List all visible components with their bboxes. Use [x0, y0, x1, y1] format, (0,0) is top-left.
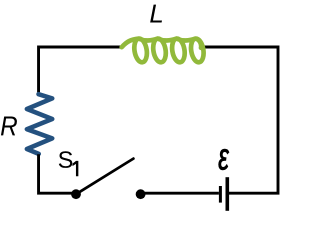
label L [150, 5, 162, 23]
label R [1, 116, 17, 135]
battery EMF source: long plate (positive) [226, 177, 230, 211]
circuit schematic: RL circuit with switch S1 and EMF source [0, 0, 281, 212]
switch S1: blade (open) [76, 159, 133, 195]
label S1 [59, 151, 73, 168]
label EMF epsilon (script) [219, 149, 229, 170]
wire: bottom from right contact to battery short plate [141, 192, 219, 195]
wire: left side below resistor and bottom-left to switch [39, 154, 72, 193]
battery EMF source: short plate (negative) [219, 186, 222, 203]
resistor R (blue zigzag) [27, 94, 52, 154]
wire: top-left segment and left side down to resistor [39, 47, 121, 92]
switch S1: left contact dot [71, 189, 81, 199]
wire: bottom-right, right side up and top-right to inductor [203, 47, 278, 193]
switch S1: right contact dot [136, 189, 146, 199]
inductor L (green coil) [122, 39, 204, 63]
